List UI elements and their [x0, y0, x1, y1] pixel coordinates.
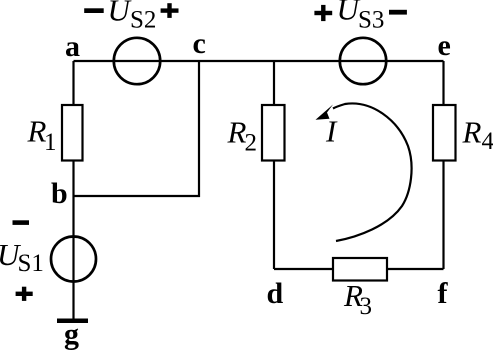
wire left vertical a-b-g	[72, 61, 74, 320]
svg-text:2: 2	[245, 129, 258, 156]
label +US3-	[314, 11, 332, 15]
source US1 circle	[51, 237, 96, 282]
svg-text:1: 1	[44, 129, 57, 156]
label US1 with polarity	[13, 220, 30, 225]
svg-text:S1: S1	[18, 250, 44, 277]
resistor R1 body	[62, 105, 83, 161]
svg-text:R: R	[462, 115, 482, 150]
resistor R3 body	[333, 258, 387, 281]
svg-text:a: a	[65, 30, 80, 63]
svg-text:c: c	[193, 27, 206, 60]
ground	[57, 319, 88, 324]
source US2 circle	[114, 38, 160, 84]
resistor R4 body	[433, 105, 456, 161]
svg-text:4: 4	[482, 128, 493, 155]
resistor R2 body	[262, 105, 285, 161]
svg-text:f: f	[438, 277, 449, 310]
svg-text:R: R	[227, 115, 247, 150]
wire R2 branch vertical	[273, 61, 275, 269]
mesh current arc	[333, 103, 412, 241]
svg-text:I: I	[325, 114, 338, 149]
svg-text:b: b	[51, 177, 68, 210]
wire bottom d-f	[274, 268, 444, 270]
svg-text:g: g	[64, 318, 79, 351]
wire b-c horizontal	[74, 195, 201, 197]
svg-text:3: 3	[360, 293, 373, 320]
svg-text:e: e	[438, 29, 451, 62]
svg-text:d: d	[267, 277, 284, 310]
svg-text:U: U	[108, 0, 133, 28]
wire right vertical e-f	[442, 61, 444, 269]
svg-text:S3: S3	[358, 7, 384, 34]
wire c down to b link	[198, 61, 200, 197]
svg-text:S2: S2	[130, 7, 156, 34]
source US3 circle	[340, 38, 386, 84]
wire top a-c-e	[74, 60, 444, 62]
mesh current arrowhead	[316, 105, 334, 120]
label -US2+	[84, 8, 104, 13]
